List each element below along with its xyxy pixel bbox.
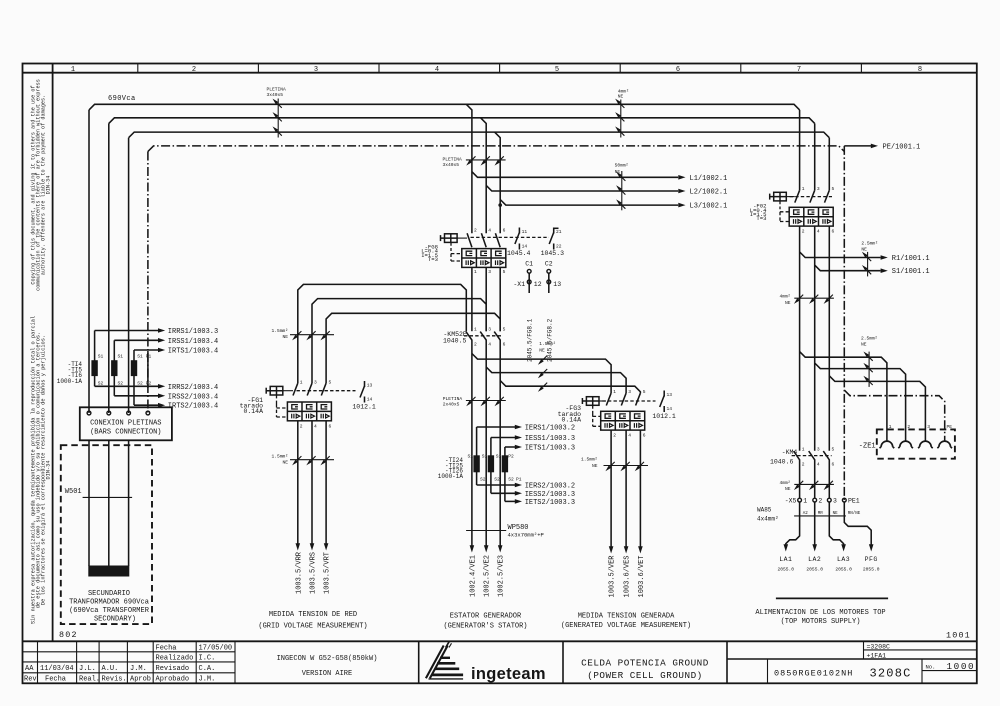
wire KM4 down R: [799, 459, 801, 498]
wire vertical phase R left: [88, 110, 90, 413]
svg-text:1: 1: [889, 424, 892, 430]
svg-text:CONEXION PLETINAS: CONEXION PLETINAS: [90, 419, 161, 427]
ingeteam logo mark: [426, 641, 463, 679]
capacitor terminal C2: [545, 261, 553, 362]
svg-text:C1: C1: [525, 261, 533, 268]
svg-text:2045.5/FG8.2: 2045.5/FG8.2: [546, 318, 553, 362]
title block revision texts: [24, 644, 232, 683]
terminal strip X5: [785, 498, 861, 516]
svg-text:5: 5: [503, 269, 506, 275]
svg-text:1.5mm²: 1.5mm²: [271, 328, 288, 334]
svg-text:4: 4: [817, 462, 820, 468]
label transformer secondary: [69, 590, 150, 623]
svg-text:3x40x5: 3x40x5: [267, 92, 284, 98]
node 1003.5/VRS: [310, 543, 315, 550]
svg-text:INGECON W G52-G58(850kW): INGECON W G52-G58(850kW): [277, 655, 378, 663]
cable WA85: [757, 507, 846, 523]
svg-text:4: 4: [488, 342, 491, 348]
svg-text:2.5mm²: 2.5mm²: [861, 240, 878, 246]
svg-text:1002.5/VE2: 1002.5/VE2: [484, 555, 492, 597]
svg-text:1000-1A: 1000-1A: [438, 473, 464, 480]
svg-text:11/03/04: 11/03/04: [40, 665, 74, 673]
svg-text:Revis.: Revis.: [102, 676, 127, 684]
current transformer TI25: [482, 438, 500, 494]
wire FG8 to KM52E S: [485, 267, 487, 331]
svg-text:IESS2/1003.3: IESS2/1003.3: [525, 491, 575, 499]
breaker FG1: [240, 380, 356, 430]
svg-text:21: 21: [556, 229, 562, 235]
svg-text:0.14A: 0.14A: [243, 408, 263, 415]
wire stator down S: [485, 455, 487, 545]
node LA1: [784, 544, 789, 551]
svg-text:PLETINA: PLETINA: [267, 87, 287, 93]
svg-text:5: 5: [643, 389, 646, 395]
svg-text:690Vca: 690Vca: [108, 95, 136, 103]
svg-text:IRSS2/1003.4: IRSS2/1003.4: [168, 393, 218, 401]
svg-text:SECUNDARIO: SECUNDARIO: [88, 590, 130, 598]
svg-text:CELDA POTENCIA GROUND: CELDA POTENCIA GROUND: [581, 657, 709, 668]
svg-text:TRANFORMADOR 690Vca: TRANFORMADOR 690Vca: [69, 599, 149, 607]
svg-text:-X1: -X1: [513, 281, 525, 288]
svg-text:NE: NE: [785, 486, 791, 492]
label TI24 TI25 TI26 1000-1A: [438, 457, 464, 480]
contactor KM4: [770, 447, 835, 468]
svg-text:1003.6/VET: 1003.6/VET: [638, 555, 646, 597]
svg-text:12: 12: [534, 281, 542, 288]
node LA2: [812, 544, 817, 551]
svg-text:50mm²: 50mm²: [615, 163, 629, 169]
wire FG8 to KM52E T: [499, 267, 501, 331]
svg-text:14: 14: [367, 396, 373, 402]
wire tap IRTS2: [134, 404, 159, 406]
svg-text:4mm²: 4mm²: [779, 480, 790, 486]
svg-text:T=3: T=3: [756, 215, 766, 222]
node 1003.5/VRR: [296, 543, 301, 550]
svg-text:IETS2/1003.3: IETS2/1003.3: [525, 499, 575, 507]
svg-text:0850RGE0102NH: 0850RGE0102NH: [774, 669, 853, 679]
bus-bar marker PLETINA 3x40x5 (left): [267, 87, 287, 138]
cable mark 1.5mm NE (FG1 bottom): [271, 453, 334, 465]
svg-text:Realizado: Realizado: [156, 655, 194, 663]
svg-text:5: 5: [555, 66, 559, 74]
contactor KM52E: [443, 327, 506, 348]
column numbers: [71, 66, 922, 74]
svg-text:LA3: LA3: [837, 556, 850, 563]
svg-text:No.: No.: [926, 663, 936, 670]
svg-text:13: 13: [667, 392, 673, 398]
wire right vertical R: [799, 110, 801, 190]
wire vertical phase S left: [108, 123, 110, 413]
cable mark 50mm NE: [615, 163, 629, 211]
svg-text:Real.: Real.: [79, 676, 100, 684]
cable WP580: [466, 524, 544, 539]
svg-text:Aprob.: Aprob.: [130, 676, 155, 684]
wire F02 down S: [814, 226, 816, 451]
svg-text:S1/1001.1: S1/1001.1: [892, 268, 930, 276]
title block project name: [277, 655, 378, 678]
svg-text:P1: P1: [146, 354, 152, 360]
breaker FG3: [558, 389, 656, 438]
svg-text:+1FA1: +1FA1: [867, 652, 887, 659]
svg-text:DIN-34: DIN-34: [45, 176, 51, 195]
svg-text:1: 1: [474, 269, 477, 275]
svg-text:NE: NE: [539, 347, 545, 353]
svg-text:PE/1001.1: PE/1001.1: [883, 143, 921, 151]
wire PE continuation to arrow: [844, 145, 871, 147]
svg-text:6: 6: [503, 228, 506, 234]
wire tap IRSS2: [114, 395, 158, 397]
wire F02 down T: [828, 226, 830, 451]
svg-text:IETS1/1003.3: IETS1/1003.3: [525, 445, 575, 453]
wire PE bus horizontal (dash-dot): [148, 146, 844, 152]
svg-text:4x3x70mm²+P: 4x3x70mm²+P: [508, 531, 544, 538]
svg-text:T=3: T=3: [428, 256, 438, 263]
svg-text:NE: NE: [833, 512, 839, 516]
bus-bar marker PLETINA 2x40x5: [443, 396, 506, 408]
aux contact FG1 13/14: [352, 381, 376, 411]
connector ZE1 dashed box: [877, 429, 955, 458]
svg-text:1040.6: 1040.6: [770, 459, 794, 466]
svg-text:4: 4: [817, 228, 820, 234]
svg-text:17/05/00: 17/05/00: [199, 644, 233, 652]
wire tap IRRS2: [95, 385, 159, 387]
wire FG1 feed T: [326, 313, 500, 383]
svg-text:PE1: PE1: [848, 498, 860, 505]
svg-text:8: 8: [918, 66, 922, 74]
wire KM52E down R: [471, 340, 473, 456]
left margin legal text EN: [31, 79, 52, 291]
svg-text:2: 2: [192, 66, 196, 74]
svg-text:(GENERATOR'S STATOR): (GENERATOR'S STATOR): [443, 622, 527, 630]
svg-text:Aprobado: Aprobado: [156, 676, 190, 684]
wire branch L2: [486, 185, 678, 191]
svg-text:2055.0: 2055.0: [806, 566, 823, 572]
svg-text:11: 11: [522, 229, 528, 235]
wire tap IRRS1: [95, 330, 159, 332]
cable mark 4mm NE (bus): [617, 89, 630, 138]
wire center drop S: [481, 118, 487, 233]
title block grid: [23, 641, 977, 683]
cable mark 4mm NE (lower): [779, 480, 833, 492]
wire branch ZE1-2: [815, 363, 906, 441]
svg-text:1012.1: 1012.1: [652, 413, 676, 420]
wire right vertical T: [828, 138, 830, 191]
svg-text:6: 6: [832, 462, 835, 468]
svg-text:3: 3: [817, 447, 820, 453]
wire FG1 out S: [311, 421, 313, 544]
wire transformer secondary 2: [108, 440, 110, 566]
transformer secondary dashed box: [61, 445, 152, 624]
svg-text:(GENERATED VOLTAGE MEASUREMENT: (GENERATED VOLTAGE MEASUREMENT): [561, 622, 691, 630]
wire branch ZE1-1: [800, 352, 887, 441]
cable mark 4mm NE (upper): [779, 294, 833, 306]
cable mark 1.5mm NE (FG1 top): [271, 328, 334, 340]
svg-text:14: 14: [522, 244, 528, 250]
svg-text:1003.5/VER: 1003.5/VER: [609, 555, 617, 598]
svg-text:2055.0: 2055.0: [863, 566, 880, 572]
svg-text:PLETINA: PLETINA: [443, 396, 463, 402]
svg-text:RN/NE: RN/NE: [848, 511, 861, 516]
svg-text:Fecha: Fecha: [45, 676, 66, 684]
cable mark 1.5mm NE (FG3 feed): [539, 341, 556, 390]
node 1002.4/VE1: [470, 545, 475, 552]
svg-text:6: 6: [503, 342, 506, 348]
wire branch S1: [815, 265, 881, 271]
left margin legal text ES: [31, 316, 52, 624]
svg-text:4: 4: [435, 66, 439, 74]
wire bus L1 horizontal: [89, 104, 800, 110]
cable mark 2.5mm NE (R1/S1): [861, 240, 878, 276]
svg-text:1003.6/VES: 1003.6/VES: [624, 555, 632, 597]
svg-text:PLETINA: PLETINA: [443, 156, 463, 162]
svg-text:P1: P1: [516, 477, 522, 483]
connector ZE1 pin 2: [898, 441, 913, 448]
svg-text:LA1: LA1: [779, 556, 792, 563]
svg-text:3x40x5: 3x40x5: [443, 162, 460, 168]
aux contact FG8 11/14: [507, 228, 531, 258]
svg-text:2: 2: [802, 228, 805, 234]
svg-text:0.14A: 0.14A: [561, 416, 581, 423]
node L1/1002.1: [678, 175, 685, 180]
svg-text:C.A.: C.A.: [199, 665, 216, 673]
svg-text:L3/1002.1: L3/1002.1: [690, 203, 728, 211]
svg-text:J.M.: J.M.: [199, 676, 216, 684]
svg-text:WA85: WA85: [757, 507, 772, 514]
svg-text:IRSS1/1003.4: IRSS1/1003.4: [168, 338, 218, 346]
svg-text:IRRS2/1003.4: IRRS2/1003.4: [168, 384, 218, 392]
node L3/1002.1: [678, 203, 685, 208]
svg-text:1002.5/VE3: 1002.5/VE3: [498, 555, 506, 597]
title block drawing title: [581, 657, 709, 680]
wire tap IERS2: [477, 484, 516, 486]
svg-text:(TOP MOTORS SUPPLY): (TOP MOTORS SUPPLY): [781, 618, 861, 626]
svg-text:S1: S1: [118, 354, 124, 360]
wire bus L3 horizontal: [129, 132, 830, 138]
svg-text:1045.4: 1045.4: [507, 250, 531, 257]
svg-text:13: 13: [553, 281, 561, 288]
svg-text:1003.5/VRR: 1003.5/VRR: [295, 551, 303, 594]
cable mark 2.5mm NE (ZE1 feed): [861, 335, 878, 387]
wire branch to FG3 R: [472, 354, 611, 394]
svg-text:PE: PE: [947, 424, 953, 430]
svg-text:14: 14: [667, 406, 673, 412]
bars connection box: [80, 407, 172, 440]
wire tap IRSS1: [114, 339, 158, 341]
current transformer TI5: [111, 340, 123, 396]
wire tap IETS1: [505, 446, 515, 448]
svg-text:2.5mm²: 2.5mm²: [861, 335, 878, 341]
svg-text:W501: W501: [65, 488, 82, 496]
wire right vertical S: [814, 123, 816, 190]
svg-text:(POWER CELL GROUND): (POWER CELL GROUND): [587, 670, 703, 681]
wire stator down T: [499, 455, 501, 545]
svg-text:IERS1/1003.2: IERS1/1003.2: [525, 425, 575, 433]
wire branch to FG3 S: [486, 367, 626, 393]
node 1002.5/VE3: [498, 545, 503, 552]
wire bus L2 horizontal: [109, 118, 815, 124]
wire KM4 down S: [814, 459, 816, 498]
wire tap IRTS1: [134, 349, 159, 351]
svg-text:4mm²: 4mm²: [618, 89, 629, 95]
svg-text:2: 2: [907, 424, 910, 430]
wire branch L1: [472, 172, 678, 178]
svg-text:2055.0: 2055.0: [835, 566, 852, 572]
current transformer TI6: [131, 350, 152, 405]
wire branch ZE1-3: [829, 376, 925, 441]
aux contact FG3 13/14: [652, 391, 676, 420]
wire FG1 out R: [297, 421, 299, 544]
svg-text:(GRID VOLTAGE MEASUREMENT): (GRID VOLTAGE MEASUREMENT): [258, 622, 367, 630]
wire X5-PE1 to PFG: [844, 502, 871, 546]
connector ZE1 pin PE: [937, 441, 952, 448]
wire KM52E down T: [499, 340, 501, 456]
wire X5-3 to LA3: [829, 502, 843, 546]
breaker F02: [750, 186, 835, 234]
svg-text:2x40x5: 2x40x5: [443, 402, 460, 408]
svg-text:2: 2: [818, 498, 822, 505]
wire X5-2 to LA2: [814, 502, 816, 546]
svg-text:2: 2: [802, 462, 805, 468]
wire stator down R: [471, 455, 473, 545]
wire branch R1: [800, 252, 881, 258]
wire vertical PE left (dash-dot): [147, 152, 149, 414]
svg-text:-ZE1: -ZE1: [859, 443, 876, 451]
svg-text:ALIMENTACION DE LOS MOTORES TO: ALIMENTACION DE LOS MOTORES TOP: [755, 609, 885, 617]
svg-text:1000: 1000: [947, 661, 976, 672]
svg-text:1.5mm²: 1.5mm²: [539, 341, 556, 347]
svg-text:2045.5/FG8.1: 2045.5/FG8.1: [527, 318, 534, 362]
svg-text:3: 3: [628, 389, 631, 395]
svg-text:NE: NE: [618, 94, 624, 100]
svg-text:SECONDARY): SECONDARY): [94, 615, 136, 623]
label TI4 TI5 TI6 1000-1A: [57, 361, 83, 385]
svg-text:1002.4/VE1: 1002.4/VE1: [469, 555, 477, 597]
wire X5-1 to LA1: [786, 502, 800, 546]
wire branch to FG3 T: [500, 381, 640, 394]
cable mark 1.5mm NE (FG3 bottom): [581, 457, 648, 470]
svg-text:J.L.: J.L.: [79, 665, 96, 673]
svg-text:6: 6: [643, 433, 646, 439]
svg-text:1: 1: [803, 498, 807, 505]
svg-text:1: 1: [802, 186, 805, 192]
svg-text:(690Vca TRANSFORMER: (690Vca TRANSFORMER: [69, 607, 150, 615]
wire FG3 out S: [625, 430, 627, 546]
svg-text:PFG: PFG: [865, 556, 878, 563]
svg-text:6: 6: [676, 66, 680, 74]
wire FG8 to KM52E R: [471, 267, 473, 331]
svg-text:IERS2/1003.2: IERS2/1003.2: [525, 483, 575, 491]
svg-text:1: 1: [474, 327, 477, 333]
wire center drop T: [495, 132, 501, 233]
svg-text:A.U.: A.U.: [102, 665, 119, 673]
svg-text:4: 4: [488, 228, 491, 234]
wire center drop R: [466, 104, 472, 233]
wire right vertical PE (dash-dot): [843, 146, 845, 500]
svg-text:S2: S2: [494, 477, 500, 483]
wire branch ZE1-PE (dash-dot): [844, 390, 944, 441]
svg-text:2: 2: [474, 228, 477, 234]
wire F02 down R: [799, 226, 801, 451]
wire FG1 feed S: [312, 299, 486, 384]
svg-text:P2: P2: [508, 454, 514, 460]
node 1003.5/VRT: [324, 543, 329, 550]
svg-text:VERSION AIRE: VERSION AIRE: [302, 670, 352, 678]
svg-text:5: 5: [832, 186, 835, 192]
svg-text:4x4mm²: 4x4mm²: [757, 516, 779, 523]
connector ZE1 pin 3: [918, 441, 933, 448]
svg-text:3: 3: [927, 424, 930, 430]
aux contact FG8 21/22 (NC): [541, 228, 565, 258]
svg-text:IRTS2/1003.4: IRTS2/1003.4: [168, 403, 218, 411]
svg-text:2055.0: 2055.0: [778, 566, 795, 572]
svg-text:3: 3: [314, 380, 317, 386]
svg-text:5: 5: [503, 327, 506, 333]
svg-text:1: 1: [802, 447, 805, 453]
node 1003.5/VER: [609, 546, 614, 553]
svg-text:3: 3: [488, 327, 491, 333]
svg-text:22: 22: [556, 244, 562, 250]
svg-text:MR: MR: [818, 512, 824, 516]
svg-text:DIN-34: DIN-34: [45, 460, 51, 479]
current transformer TI26: [496, 447, 522, 501]
svg-text:NE: NE: [282, 460, 288, 466]
svg-text:S1: S1: [137, 354, 143, 360]
svg-text:3: 3: [833, 498, 837, 505]
wire tap IESS2: [491, 492, 515, 494]
svg-text:LA2: LA2: [808, 556, 821, 563]
svg-text:2: 2: [474, 342, 477, 348]
svg-text:1: 1: [300, 380, 303, 386]
svg-text:S1: S1: [98, 354, 104, 360]
svg-text:NE: NE: [282, 334, 288, 340]
svg-text:Revisado: Revisado: [156, 665, 190, 673]
svg-text:NE: NE: [861, 342, 867, 348]
separator line top motors: [776, 597, 888, 599]
svg-text:AA: AA: [25, 665, 34, 673]
connector ZE1 pin 1: [880, 441, 895, 448]
svg-text:1.5mm²: 1.5mm²: [271, 453, 288, 459]
svg-text:IRRS1/1003.3: IRRS1/1003.3: [168, 328, 218, 336]
svg-text:3: 3: [488, 269, 491, 275]
wire FG3 out T: [639, 430, 641, 546]
svg-text:802: 802: [59, 630, 78, 640]
svg-text:ESTATOR GENERADOR: ESTATOR GENERADOR: [450, 612, 522, 620]
wire transformer secondary 3: [128, 440, 130, 566]
svg-text:S2: S2: [480, 477, 486, 483]
svg-text:(BARS CONNECTION): (BARS CONNECTION): [90, 428, 161, 436]
svg-text:1003.5/VRS: 1003.5/VRS: [310, 552, 318, 594]
svg-text:3208C: 3208C: [870, 666, 912, 680]
svg-text:IESS1/1003.3: IESS1/1003.3: [525, 435, 575, 443]
svg-text:4: 4: [314, 424, 317, 430]
bus-bar marker PLETINA 3x40x5 (center): [443, 156, 506, 168]
svg-text:L1/1002.1: L1/1002.1: [690, 175, 728, 183]
svg-text:1: 1: [71, 66, 75, 74]
svg-text:IRTS1/1003.4: IRTS1/1003.4: [168, 348, 218, 356]
svg-text:1000-1A: 1000-1A: [57, 378, 83, 385]
svg-text:1: 1: [613, 389, 616, 395]
node L2/1002.1: [678, 189, 685, 194]
svg-text:4: 4: [628, 433, 631, 439]
node 1003.6/VES: [624, 546, 629, 553]
svg-text:MEDIDA TENSION GENERADA: MEDIDA TENSION GENERADA: [578, 612, 675, 620]
wire tap IESS1: [491, 437, 515, 439]
wire tap IETS2: [505, 500, 515, 502]
svg-text:S2: S2: [508, 477, 514, 483]
node PFG: [869, 544, 874, 551]
capacitor terminal C1: [525, 261, 533, 362]
svg-text:1040.5: 1040.5: [443, 338, 467, 345]
